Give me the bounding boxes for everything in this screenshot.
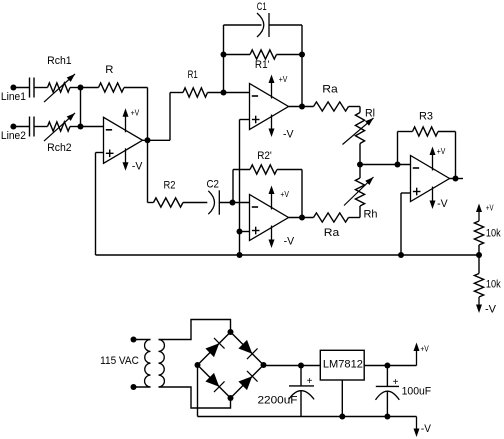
svg-text:Rch1: Rch1 — [47, 55, 72, 67]
svg-text:2200uF: 2200uF — [258, 395, 298, 407]
svg-text:+: + — [307, 376, 313, 387]
svg-text:R: R — [105, 64, 113, 76]
svg-text:Rch2: Rch2 — [47, 142, 72, 154]
svg-text:10k: 10k — [486, 228, 501, 240]
svg-text:R1': R1' — [255, 59, 270, 71]
svg-text:+V: +V — [420, 343, 429, 353]
svg-text:+V: +V — [486, 202, 494, 212]
svg-text:+: + — [393, 377, 399, 388]
svg-text:Rh: Rh — [364, 209, 378, 221]
svg-text:-V: -V — [132, 161, 143, 173]
svg-text:Rl: Rl — [365, 108, 375, 120]
svg-text:+V: +V — [280, 189, 289, 199]
svg-text:Ra: Ra — [322, 84, 338, 96]
svg-text:-V: -V — [437, 198, 448, 210]
svg-text:Ra: Ra — [324, 227, 340, 239]
svg-text:R2: R2 — [164, 180, 176, 192]
svg-text:C2: C2 — [206, 178, 219, 190]
svg-text:100uF: 100uF — [402, 386, 432, 398]
svg-text:C1: C1 — [257, 1, 267, 13]
svg-text:115 VAC: 115 VAC — [100, 355, 139, 367]
svg-text:+V: +V — [131, 108, 140, 118]
svg-text:LM7812: LM7812 — [323, 359, 363, 371]
svg-text:Line1: Line1 — [1, 91, 26, 103]
svg-text:Line2: Line2 — [1, 130, 26, 142]
svg-text:-V: -V — [284, 236, 295, 248]
svg-text:R2': R2' — [257, 150, 272, 162]
svg-text:10k: 10k — [486, 279, 501, 291]
svg-text:+V: +V — [437, 146, 446, 156]
svg-text:-V: -V — [283, 129, 294, 141]
svg-text:+V: +V — [279, 74, 288, 84]
svg-text:-V: -V — [421, 423, 432, 435]
svg-text:R1: R1 — [188, 69, 198, 81]
svg-text:R3: R3 — [419, 111, 433, 123]
svg-text:-V: -V — [485, 303, 497, 315]
